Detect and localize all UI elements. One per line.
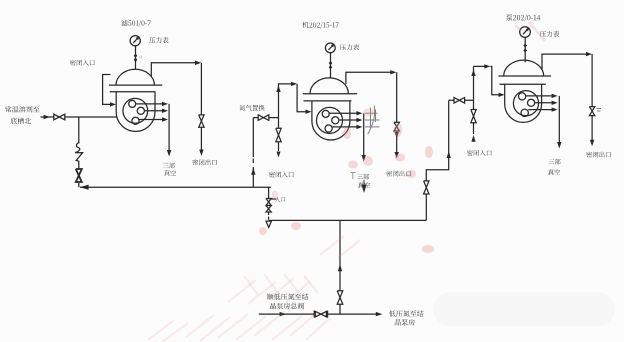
label 晶泵房 (395, 319, 415, 325)
outlet top wire U2 (346, 72, 395, 84)
vessel V1 port circle c (132, 117, 139, 124)
gauge stem wire U1 (135, 46, 137, 70)
riser stub end arrow U2 (down) (277, 152, 281, 158)
top corner arrow U3 (right) (484, 64, 490, 68)
label 顺低压氮至结 (267, 293, 309, 299)
nitrogen flow arrow (280, 312, 287, 316)
label 压力表 (540, 31, 559, 37)
label 泵202/0-14 (506, 14, 540, 21)
sealed-inlet stub arrow U2 (up) (251, 168, 255, 175)
stub lower wire U3 (473, 123, 475, 134)
label 晶泵房总阀 (270, 303, 304, 309)
nitrogen riser valve (337, 291, 343, 305)
label 底槽北 (11, 118, 31, 125)
watermark pink blobs (259, 109, 434, 254)
vessel V3 flange bottom (500, 83, 546, 85)
nitrogen purge valve (bowtie) U2 (258, 115, 269, 121)
label 密闭出口 (586, 151, 611, 157)
watermark bottom-left pink smudges (148, 236, 360, 342)
label 机202/15-17 (302, 22, 338, 29)
vacuum collector end arrow U3 (557, 142, 561, 149)
wire valve2 to header (268, 212, 270, 221)
nitrogen purge wire U2 (253, 117, 278, 119)
vessel V2 dome (310, 78, 348, 94)
vacuum collector arrows U3 (526, 95, 556, 97)
lower header wire y220 (269, 219, 427, 221)
top elbow wire U3 (474, 66, 504, 94)
outlet drop wire U1 (200, 63, 202, 115)
outlet valve U3 (589, 107, 594, 116)
pressure gauge PG3 (520, 27, 531, 38)
outlet end arrow U2 (395, 152, 399, 159)
vessel V3 port circle a (519, 93, 526, 100)
hollow triangle connector x268 (266, 221, 271, 227)
pressure gauge PG1 (130, 36, 140, 46)
outlet end arrow U1 (199, 150, 203, 157)
label 氮气置换 (239, 105, 264, 111)
stacked valve 1 x268 (266, 199, 271, 206)
vessel V1 flange bottom (110, 91, 156, 93)
riser valve U2 (276, 128, 281, 142)
nitrogen bowtie valve (315, 311, 326, 316)
bowtie valve U3 left (454, 98, 465, 104)
label 压力表 (340, 44, 359, 50)
outlet mid arrow U2 (down) (395, 132, 399, 138)
sealed-inlet dashed stub U2 (252, 118, 254, 157)
vacuum collector wire U3 (558, 96, 560, 143)
label α (140, 56, 143, 59)
label 密闭入口 (467, 150, 492, 156)
label 滤501/0-7 (121, 20, 150, 27)
nitrogen riser up arrow (338, 265, 342, 272)
inlet riser wire U1 (103, 75, 114, 105)
nitrogen riser lower wire (339, 304, 341, 314)
watermark gray strokes near U2 arrows (351, 106, 602, 186)
gauge root valve U1 (two diamonds) (134, 54, 138, 63)
label 密闭出口 (192, 159, 217, 165)
riser up arrow U3 (471, 70, 475, 77)
stub up arrow U3 (471, 135, 475, 142)
label 三部 (548, 159, 560, 165)
label 三部 (357, 174, 369, 180)
vessel V1 port circle b (137, 107, 144, 114)
vessel V1 flange top (109, 84, 162, 86)
inlet corner arrow U2 (right) (291, 82, 297, 86)
wire bowtie to riser U3 (449, 99, 474, 101)
drain branch wire U1 (78, 117, 80, 143)
label 密闭入口 (269, 171, 294, 177)
wire valve to return line (78, 182, 80, 187)
pressure gauge PG2 (325, 43, 335, 53)
outlet top wire U1 (151, 63, 199, 77)
outlet lower wire U1 (200, 127, 202, 150)
outlet valve U1 (199, 115, 204, 127)
label 真空 (548, 169, 560, 175)
double valve drop x268 (268, 187, 270, 198)
solvent valve (bowtie) (54, 114, 65, 120)
vessel V1 dome (116, 69, 154, 85)
outlet corner arrow U2 (390, 70, 396, 74)
outlet corner arrow U3 (586, 52, 592, 56)
inlet elbow wire U2 (297, 84, 309, 112)
header up arrow U3 (447, 152, 451, 159)
label 真空 (164, 170, 176, 176)
vessel V1 port circle a (129, 100, 136, 107)
vessel V3 port circle c (521, 109, 528, 116)
inlet arrow into V1 (110, 102, 116, 106)
vessel V2 flange top (303, 93, 357, 95)
vacuum collector end arrow U1 (167, 150, 171, 157)
sealed-inlet stub wire U3 (473, 100, 475, 109)
inlet line from header U3 (426, 157, 448, 181)
watermark pink streak near PG3 (515, 22, 545, 41)
vessel V2 port circle c (325, 125, 332, 132)
vacuum collector wire U2 (363, 113, 365, 156)
vessel V2 port circle a (322, 110, 329, 117)
outlet lower wire U2 (396, 131, 398, 153)
outlet drop wire U3 (591, 54, 593, 107)
vacuum collector wire U1 (168, 104, 170, 151)
vessel V3 flange top (498, 75, 551, 77)
vessel V2 rotor circle (317, 107, 343, 133)
wire below zigzag (78, 161, 80, 169)
outlet drop wire U2 (396, 72, 398, 122)
nitrogen end arrow (376, 312, 383, 316)
leader tick (271, 198, 276, 200)
stacked valve 2 x268 (266, 206, 271, 213)
break/zigzag symbol (75, 143, 82, 162)
solvent flow arrow (44, 115, 50, 119)
vacuum collector arrows U1 (136, 103, 166, 105)
outlet valve U2 (394, 122, 399, 131)
vessel V2 flange bottom (304, 100, 352, 102)
gauge stem wire U2 (330, 53, 332, 78)
nitrogen riser wire x340 (339, 220, 341, 290)
nitrogen supply wire (259, 313, 380, 315)
label 密闭入口 (70, 60, 95, 66)
vacuum collector arrows U2 (329, 112, 360, 114)
sealed-inlet stub valve U3 (471, 110, 476, 123)
outlet corner arrow U1 (195, 61, 201, 65)
inlet arrow into V3 (499, 93, 505, 97)
outlet top wire U3 (542, 54, 590, 69)
gauge stem wire U3 (524, 37, 526, 62)
header valve x426 (424, 181, 429, 194)
header drop wire x426 (425, 194, 427, 220)
label 密闭出口 (386, 171, 411, 177)
label 常温溶剂至 (5, 106, 39, 113)
vessel V1 body (116, 92, 155, 132)
wire 448 up to bowtie junction (448, 100, 450, 157)
riser stub wire U2 (278, 142, 280, 151)
outlet lower wire U3 (591, 116, 593, 141)
solvent line wire (41, 116, 117, 118)
inlet top path U2 (279, 84, 296, 118)
vessel V3 dome (504, 60, 544, 76)
vessel V3 rotor circle (513, 91, 538, 116)
label 压力表 (149, 37, 168, 43)
vacuum collector end arrow U2 (362, 155, 366, 162)
label 三部 (163, 163, 175, 169)
riser wire U3 (473, 66, 475, 100)
vessel V2 port circle b (332, 117, 339, 124)
vessel V2 body (312, 101, 350, 140)
outlet end arrow U3 (590, 140, 594, 147)
vessel V3 body (505, 84, 542, 122)
return header wire (80, 186, 271, 188)
vessel V1 rotor circle (123, 98, 148, 123)
stray arrow mark over U2 vacuum label (361, 185, 366, 194)
label 入口 (275, 197, 285, 202)
label 低压氮至结 (389, 310, 424, 316)
gauge root valve U3 (523, 43, 527, 52)
watermark bottom-right light band (433, 292, 615, 326)
drain valve U1 (hourglass) (76, 169, 82, 182)
inlet arrow into V2 (306, 110, 312, 114)
vessel V3 port circle b (528, 99, 535, 106)
riser wire U2 (278, 118, 280, 129)
return header arrow (left) (80, 185, 89, 190)
inlet up arrow U2 (276, 86, 280, 93)
gauge root valve U2 (329, 61, 333, 70)
label 真空 (358, 182, 370, 188)
